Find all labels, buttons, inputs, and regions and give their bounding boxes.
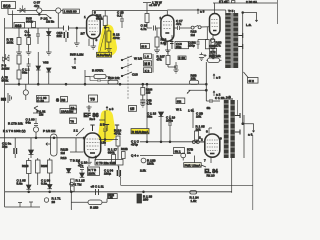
R16 resistor [155,37,159,47]
V2 anode top [147,10,167,15]
svg-text:Q 4 +: Q 4 + [131,153,139,157]
svg-text:S: S [56,98,59,103]
wire [119,166,121,177]
svg-text:50µ: 50µ [176,45,181,49]
P102 pot top [33,106,42,113]
node [104,139,106,141]
svg-text:47n: 47n [176,22,181,26]
bracket [152,54,154,73]
switch wafer dashed [127,56,129,100]
branch right [243,124,255,132]
C2 cap el84 grid [206,62,220,103]
yellow label R61 [131,129,149,134]
svg-text:100p: 100p [188,44,195,48]
transformer T1 left winding [225,13,231,68]
C cap to gnd [174,62,178,70]
grid wire V3 [209,26,210,28]
V3 internals [211,20,218,27]
wire [31,132,36,158]
box label S16 [2,2,16,9]
svg-text:C T0 22n 2 35: C T0 22n 2 35 [96,161,116,165]
svg-text:T5: T5 [90,97,95,102]
svg-text:PMU 10mA: PMU 10mA [185,163,202,167]
svg-text:R 1TB 10k: R 1TB 10k [8,122,23,126]
P1/1 arrow [46,14,51,18]
svg-text:10k: 10k [196,115,201,119]
V2 arrow [74,58,76,64]
bottom left resistors col1 [27,161,32,174]
R2b resistor [211,40,215,49]
R105 resistor [195,131,199,140]
S18 box [14,22,25,28]
cap [34,118,38,126]
R104 resistor [141,88,145,96]
R115b [71,186,75,192]
coupling cap C1B [64,26,69,31]
svg-text:R10 12k: R10 12k [108,76,120,80]
svg-text:100n: 100n [166,119,173,123]
Si2b pointer [244,72,249,78]
box label 186/280 [63,9,80,13]
left rail [4,18,6,138]
Si8 box label [141,44,150,49]
C103 box [37,96,50,103]
M5 box [144,61,152,66]
el cap dark [118,170,121,176]
arrow up3 [197,9,199,14]
C111 cap [96,189,99,195]
node [76,27,78,29]
svg-text:Tr 5: Tr 5 [228,9,234,13]
svg-text:500k: 500k [2,79,9,83]
ground R104 [140,102,145,107]
svg-text:C 1 2B: C 1 2B [215,96,224,100]
V5 anode wire [209,128,212,134]
svg-text:W 1/2: W 1/2 [134,56,142,60]
svg-text:M 5: M 5 [144,62,150,66]
col3 resistor [48,160,53,173]
R11 resistor [103,16,107,26]
bottom bus [5,191,232,193]
svg-text:680k: 680k [96,17,103,21]
triode V2 [161,15,174,41]
jack circle k [181,153,186,158]
R19 resistor [116,136,120,146]
switch contact2 [198,26,201,29]
V4 internals [87,139,99,150]
svg-text:R 11B: R 11B [90,206,98,210]
T2 secondary line [243,115,245,158]
svg-text:R12B: R12B [121,147,128,151]
T2 tap 2 [235,130,240,135]
T2 tap 1 [235,113,240,118]
switch arm left [76,128,84,136]
svg-text:L 6: L 6 [145,55,149,59]
el cap [14,148,17,154]
svg-text:+B: +B [227,95,231,99]
ground V1 [91,46,97,49]
svg-text:Si 2: Si 2 [249,79,255,83]
svg-text:T6: T6 [70,119,74,123]
EF86 ground top [86,105,91,112]
svg-text:47p: 47p [34,4,39,8]
Sk1 box [174,148,185,154]
vert x71 [70,192,72,210]
svg-text:S16: S16 [3,3,11,8]
ground [173,70,178,73]
svg-text:220k: 220k [88,171,95,175]
wires R75 [19,28,29,52]
L6 box [144,54,152,59]
svg-text:3.3n: 3.3n [41,182,47,186]
C17 cap out [174,26,191,30]
R123 resistor dark [137,194,142,203]
pot P1/2 body [51,134,58,156]
jack J2 [56,8,61,13]
jack J1 [37,8,42,13]
node [35,137,37,139]
node dots bus2 [28,191,30,193]
highlight stroke over EF86 anode stage [98,110,116,142]
highlight stroke over R12 stage [98,25,117,57]
wire R95 [206,49,221,61]
svg-text:P 1/2 1M: P 1/2 1M [43,129,56,133]
svg-text:a 3: a 3 [216,75,221,79]
wire [37,52,39,84]
svg-text:1: 1 [84,15,86,19]
svg-text:2 1: 2 1 [74,129,79,133]
svg-text:23: 23 [52,200,56,204]
box R3 [61,97,68,102]
svg-text:Sb: Sb [207,106,211,110]
R95 resistor top [208,58,220,62]
C104 drop [120,177,122,185]
svg-text:T B 1M: T B 1M [70,158,80,162]
jack circle mid [23,90,28,95]
bus right mid [140,141,204,143]
long vertical right [252,135,254,210]
pointer diag yellow [99,27,106,57]
svg-text:+5 C 1 11: +5 C 1 11 [91,185,105,189]
switch arms [122,56,132,76]
svg-text:NH: NH [1,97,6,101]
pentode V4 EF86 [84,133,100,158]
V2 internals [163,22,172,29]
diode D2 [36,66,41,70]
cap [168,115,172,142]
T1 secondary tap 1 [238,33,243,38]
svg-text:1M: 1M [61,151,66,155]
wire R16 [156,28,158,50]
switch arm diag [187,90,206,93]
node [38,14,40,16]
svg-text:Sk 1: Sk 1 [175,149,181,153]
pin cap T2 [105,125,109,132]
R05 resistor [32,22,36,28]
svg-text:4.7µ: 4.7µ [25,33,31,37]
wire [5,138,16,192]
svg-text:680k: 680k [108,151,115,155]
box label 15 [129,106,137,112]
svg-text:1.9k: 1.9k [108,196,113,199]
svg-text:2: 2 [201,137,203,141]
wire top second [8,9,46,15]
R122 box [108,194,118,200]
svg-text:3: 3 [96,38,98,42]
svg-text:Ra 8: Ra 8 [90,117,96,121]
C104b cap dark [140,100,145,102]
C16 el cap [170,42,174,50]
small caps bottom [18,202,33,207]
node dots bus [18,83,20,85]
svg-text:2.2k: 2.2k [161,41,167,45]
wire to R19 [99,140,118,147]
diode n1 [80,173,85,177]
R14 resistor [145,14,149,23]
svg-text:C2B: C2B [210,44,216,48]
triode V3 [210,14,221,36]
wire cap to V2 [156,27,161,29]
R104 wires [142,84,144,99]
box label 13A [60,109,77,114]
secondary wire long [242,13,244,125]
svg-text:47k: 47k [98,68,103,72]
wires cols [29,158,50,185]
C16 label box [175,42,189,50]
switch arm [194,25,209,27]
svg-text:47k: 47k [157,58,162,62]
R11B box label [88,167,100,175]
R96 resistor [189,80,198,84]
T2 left stripes [224,104,229,154]
svg-text:9: 9 [220,136,222,140]
node [104,27,106,29]
svg-text:1 76 W: 1 76 W [152,0,162,4]
R76 resistor [27,38,31,45]
R77 resistor [17,55,21,64]
svg-text:7: 7 [204,158,206,162]
svg-text:230: 230 [143,198,148,202]
svg-text:D 33: D 33 [37,99,44,103]
svg-text:22k: 22k [57,34,62,38]
MH jack [8,93,12,103]
wire R14 down [147,23,152,29]
svg-text:K 2: K 2 [145,69,150,73]
svg-text:2/7: 2/7 [81,32,86,36]
B+ wire over V1 [92,9,147,11]
pin3 mark [213,74,215,79]
pin2 mark [213,91,215,96]
svg-text:1: 1 [160,16,162,20]
svg-text:R3: R3 [61,98,65,102]
svg-text:27k: 27k [216,44,221,48]
svg-text:8.8+/4mA: 8.8+/4mA [97,53,111,57]
svg-text:C13: C13 [132,72,138,76]
value box 270 [210,48,217,54]
anode V4 chain [99,111,105,128]
el cap dark [64,32,67,38]
svg-text:V2: V2 [72,65,76,69]
plus node [204,54,207,57]
svg-text:64n: 64n [26,121,31,125]
svg-text:1 86/2 80: 1 86/2 80 [64,10,77,14]
svg-text:13k: 13k [191,77,196,81]
V4 grid wire [70,138,84,152]
jack circle [33,127,38,132]
T2 right rail [231,158,233,193]
R11 wires [104,10,106,50]
C13 coupling cap [120,10,124,28]
wire [161,108,193,142]
svg-text:220µ: 220µ [104,172,111,176]
svg-text:Rk 10: Rk 10 [207,173,215,177]
svg-text:2 1 86: 2 1 86 [219,0,228,4]
svg-text:R1B: R1B [61,156,67,160]
svg-text:a 8: a 8 [109,107,114,111]
T2 right stripes [230,105,234,153]
diode D4 [29,150,34,155]
R12B circle [141,158,146,163]
T1 core lines [231,13,232,68]
node [160,141,162,143]
svg-text:4.7n: 4.7n [141,27,147,31]
ground row y52 [16,52,51,55]
R171 circle [44,198,48,202]
svg-text:5.6n: 5.6n [17,182,23,186]
C T0 wide box [95,159,123,165]
edge line right [276,0,278,24]
R2a resistor [205,40,209,49]
ground [74,43,80,46]
svg-text:R109: R109 [41,164,48,168]
wire to R12 [105,28,109,32]
Si2 box g [176,98,185,104]
pentode V1 [87,15,101,39]
R11B rounded [88,200,102,205]
R07 resistor horizontal [94,75,106,79]
vertical feed x207 [206,27,208,40]
P4 bowtie [3,54,10,61]
svg-text:V03: V03 [43,60,49,64]
svg-text:R108: R108 [22,164,29,168]
wire jack [25,84,27,100]
wire jack drop [39,13,58,28]
T2 right winding [230,100,234,158]
diode D1 [47,32,52,36]
pot symbol bowtie [20,5,25,12]
R12 resistor [107,31,111,42]
svg-text:1a: 1a [187,151,191,155]
T1 top connections [167,10,234,13]
C cap in yellow [103,129,107,140]
ground R12 [106,49,112,52]
svg-text:Si 8: Si 8 [141,45,147,49]
diode dark [159,112,164,117]
Si2b box [248,78,259,84]
svg-text:R05 2.2M: R05 2.2M [70,52,84,56]
T6 box [70,118,77,123]
V2 cathode [167,35,172,50]
svg-text:L.S.: L.S. [246,23,252,27]
T1 right stripes [233,17,238,62]
grid wire into V1 [5,27,87,29]
wire [19,64,49,84]
svg-text:270: 270 [210,50,215,54]
C1B2 cap [196,40,207,50]
diode b1 [26,185,31,189]
V3 cathode chain [212,35,214,38]
R124 resistor [190,191,197,194]
R10 resistor [108,80,118,84]
svg-text:R 1 T 0 100k (V): R 1 T 0 100k (V) [3,129,26,133]
LS wire [243,13,258,22]
svg-text:3: 3 [206,129,208,133]
svg-text:2.5k: 2.5k [140,168,146,172]
svg-text:1.5k: 1.5k [191,199,197,203]
svg-text:W 1: W 1 [176,107,182,111]
svg-text:1M: 1M [39,113,44,117]
diode b2 [47,185,52,189]
ground V2k [154,50,171,53]
svg-text:100k: 100k [7,41,14,45]
svg-text:2+2M: 2+2M [2,67,10,71]
svg-text:13A1/2M: 13A1/2M [61,109,74,113]
node [242,123,244,125]
svg-text:470k: 470k [114,132,121,136]
svg-text:120k: 120k [147,162,154,166]
yellow meter label [97,52,112,57]
pin cap T1 [90,125,94,131]
main bus mid [5,83,205,85]
V1 anode top [91,10,93,15]
R17 resistor [112,155,116,165]
V1 cathode drop [89,39,93,46]
pointer [201,165,206,167]
R78 resistor [17,70,21,79]
svg-text:470k: 470k [113,36,120,40]
pin cap T3 [115,125,119,131]
bottom stub line [5,192,40,207]
R115 boxes [71,179,75,185]
mid bus [0,137,84,139]
wire to R10 [85,70,90,84]
V1 internals [89,21,99,32]
EL84 tube V5 [205,134,220,157]
S10 box [178,56,186,60]
svg-text:a 6: a 6 [248,133,253,137]
transformer T2 +B tap [224,96,233,99]
T1 secondary tap 2 [238,44,243,49]
svg-text:S18: S18 [15,24,21,28]
svg-text:9 60: 9 60 [179,56,185,60]
svg-text:Si2: Si2 [177,100,182,104]
svg-text:2 B: 2 B [100,123,105,127]
V3 anode to top [213,3,277,14]
svg-text:33n: 33n [22,71,27,75]
wire top main [17,9,63,11]
column caps row [36,28,40,44]
R75 resistor [17,38,21,45]
svg-text:R 1 15: R 1 15 [76,178,85,182]
R12 wire [108,42,110,48]
T5 box [89,95,98,102]
svg-text:15: 15 [130,107,134,111]
svg-text:47n: 47n [78,164,83,168]
V5 internals [207,140,218,151]
T1 right winding [233,13,238,68]
pot wiper [46,143,51,146]
svg-text:1 TM: 1 TM [75,182,82,186]
